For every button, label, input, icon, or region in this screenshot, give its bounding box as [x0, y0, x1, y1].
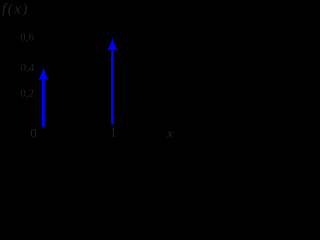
- svg-text:0: 0: [30, 126, 37, 141]
- svg-text:1: 1: [110, 124, 117, 139]
- svg-text:f(x): f(x): [2, 2, 29, 18]
- svg-text:x: x: [166, 126, 173, 141]
- svg-text:0,4: 0,4: [21, 62, 35, 74]
- svg-text:0,2: 0,2: [20, 88, 34, 100]
- arrow head at x=0: [38, 67, 48, 80]
- arrow shaft at x=1 (P=0.6): [111, 47, 114, 125]
- svg-text:0,6: 0,6: [20, 32, 34, 44]
- arrow shaft at x=0 (P=0.4): [42, 76, 45, 127]
- arrow head at x=1: [107, 38, 117, 51]
